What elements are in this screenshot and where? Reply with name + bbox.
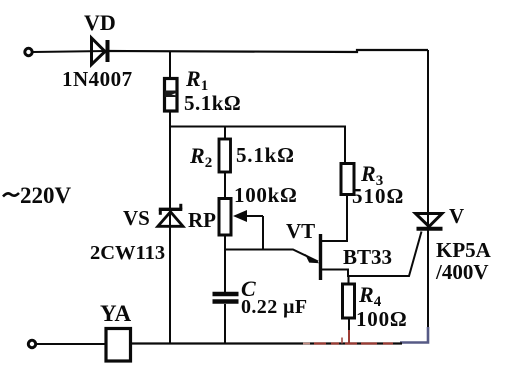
svg-text:100Ω: 100Ω: [356, 307, 408, 331]
wire: diode to top-right corner: [109, 50, 428, 52]
svg-text:VT: VT: [286, 219, 315, 243]
wire: R4 top lead: [348, 276, 350, 284]
svg-text:220V: 220V: [20, 183, 72, 208]
wire: bottom rail: [130, 342, 402, 344]
svg-text:VD: VD: [84, 10, 116, 35]
wire: left rail top (junction to R1): [169, 51, 171, 78]
svg-text:0.22 µF: 0.22 µF: [241, 296, 308, 318]
smudge inside R1: [165, 91, 177, 98]
wire: right rail: [427, 50, 429, 327]
wire: emitter row from RP-C junction to UJT: [225, 250, 318, 262]
UJT emitter arrowhead: [305, 254, 320, 263]
terminal top-left: [25, 48, 32, 55]
wire: bottom terminal to YA: [37, 343, 107, 345]
resistor R3: [341, 164, 354, 195]
electromagnet YA: [106, 329, 131, 362]
terminal bottom-left: [28, 340, 35, 347]
potentiometer RP body: [219, 199, 231, 236]
RP wiper arrow: [233, 210, 263, 250]
wire: capacitor to bottom rail: [224, 304, 226, 344]
svg-text:5.1kΩ: 5.1kΩ: [184, 91, 241, 115]
svg-text:BT33: BT33: [343, 245, 392, 269]
svg-text:KP5A: KP5A: [436, 238, 492, 262]
wire: base2 to R3: [320, 194, 347, 241]
zener diode VS: [158, 204, 183, 227]
wire: bottom rail red watermark dashes: [314, 342, 393, 344]
thyristor V: [416, 214, 443, 229]
watermark red tick near R4 lead: [341, 338, 343, 344]
svg-text:V: V: [449, 204, 464, 228]
capacitor C: [213, 294, 239, 302]
wire: left rail R1 to bottom rail: [169, 112, 171, 344]
wire: RP bottom to capacitor: [224, 235, 226, 292]
resistor R1: [165, 79, 178, 112]
label ~220V: [3, 193, 19, 197]
svg-text:YA: YA: [100, 301, 131, 326]
svg-text:VS: VS: [123, 206, 150, 230]
svg-text:1N4007: 1N4007: [62, 67, 133, 91]
diode VD: [92, 38, 110, 65]
svg-text:510Ω: 510Ω: [352, 184, 404, 208]
resistor R2: [219, 139, 231, 172]
wire: R2 to RP: [224, 172, 226, 198]
wire: R4 bottom lead (black part): [348, 318, 350, 330]
wire: top-left terminal to diode: [33, 51, 107, 52]
wire: R4 bottom lead (red part): [348, 330, 350, 343]
transistor VT bar: [319, 234, 322, 280]
wire: R2 top lead: [224, 127, 226, 140]
svg-text:RP: RP: [188, 208, 216, 232]
svg-text:2CW113: 2CW113: [90, 242, 165, 264]
svg-text:5.1kΩ: 5.1kΩ: [236, 143, 295, 167]
wire: node row y126 from rail to R3 lead: [170, 127, 345, 164]
watermark faint red dash: [303, 343, 310, 345]
wire: right rail lower (blue): [400, 327, 428, 343]
wire: base1 to R4 node and gate wire: [320, 232, 422, 277]
svg-text:/400V: /400V: [435, 260, 489, 284]
resistor R4: [343, 284, 355, 318]
svg-text:100kΩ: 100kΩ: [234, 183, 298, 207]
